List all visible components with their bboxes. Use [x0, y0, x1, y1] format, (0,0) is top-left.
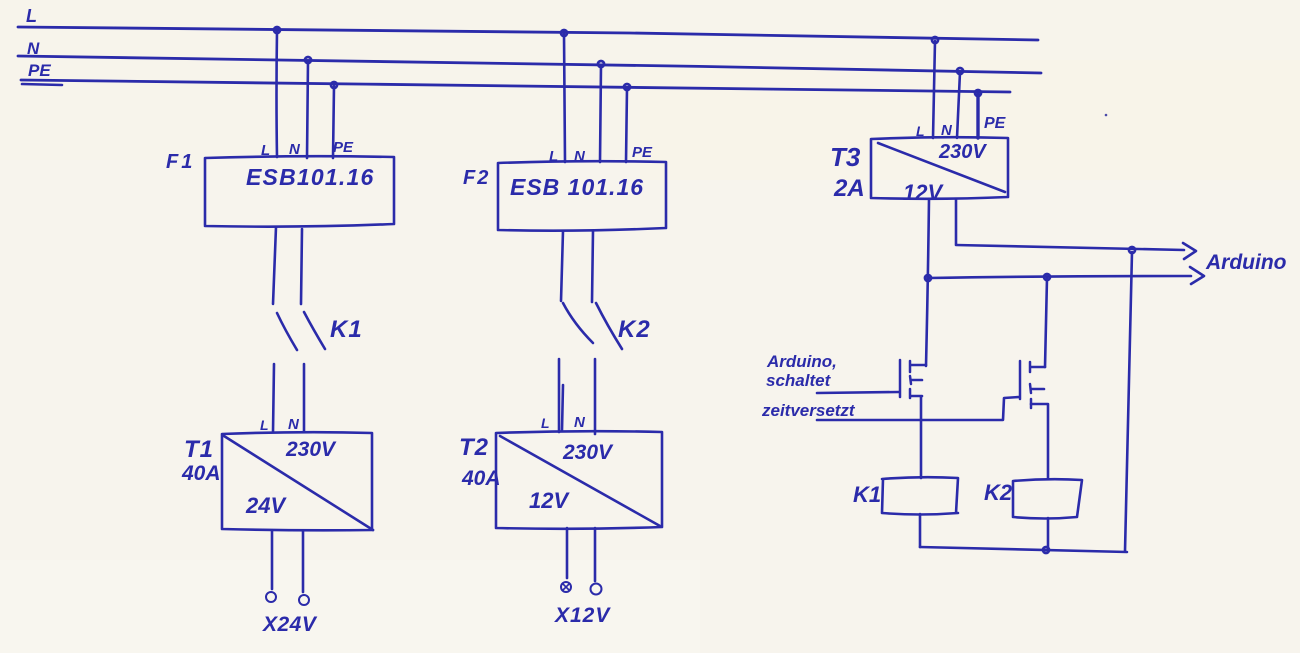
wire PE rail start double stroke [22, 84, 62, 85]
svg-text:24V: 24V [245, 493, 287, 518]
transformer T2 diagonal [500, 436, 660, 526]
terminal X24V left [266, 592, 276, 602]
junction line A [1129, 247, 1135, 253]
wire to T2 L [558, 359, 561, 432]
wire K1 coil out [919, 514, 922, 547]
wire PE rail [21, 80, 1010, 92]
junction N to F2 [598, 61, 604, 67]
svg-text:X12V: X12V [554, 604, 611, 627]
svg-text:N: N [288, 416, 300, 433]
wire N tap to F1 [307, 61, 308, 158]
svg-text:40A: 40A [181, 462, 221, 485]
junction PE to F2 [624, 84, 630, 90]
wire F1 L out [273, 227, 276, 304]
junction line B mid [1044, 274, 1050, 280]
svg-text:K2: K2 [618, 316, 651, 343]
svg-text:Arduino: Arduino [1205, 251, 1287, 274]
wire T2 out right [594, 528, 597, 581]
svg-text:F1: F1 [166, 151, 195, 173]
transistor Q1 gate bar [899, 360, 902, 397]
svg-text:PE: PE [333, 139, 354, 156]
svg-text:230V: 230V [562, 441, 614, 464]
wire Q1 gate lead [817, 392, 899, 393]
breaker F2 box [498, 161, 666, 230]
transistor Q1 drain connection [911, 364, 926, 367]
wire T2 out left [566, 528, 569, 578]
wire PE tap to F2 [626, 88, 627, 162]
svg-text:12V: 12V [903, 180, 944, 205]
svg-text:T2: T2 [459, 434, 489, 461]
svg-text:230V: 230V [938, 141, 987, 163]
wire Q2 drain up to line B [1045, 278, 1047, 367]
arrow line A [1183, 243, 1196, 259]
svg-text:2A: 2A [833, 175, 865, 202]
wire to T1 L [273, 364, 274, 432]
wire Q2 gate lead [817, 397, 1019, 420]
svg-text:Arduino,: Arduino, [766, 352, 837, 371]
svg-text:12V: 12V [529, 488, 570, 513]
wire bottom return [920, 547, 1127, 552]
wire to T1 N [303, 364, 306, 431]
wire N rail [18, 56, 1041, 73]
junction bottom return [1043, 547, 1049, 553]
transistor Q2 gate bar [1019, 361, 1022, 399]
arrow line B [1190, 267, 1204, 284]
wire arduino line B [928, 276, 1191, 278]
transformer T1 box [222, 432, 373, 530]
wire PE tap to T3 [976, 94, 979, 138]
svg-text:N: N [574, 414, 586, 431]
switch K1 blade left [277, 313, 297, 350]
svg-text:X24V: X24V [262, 613, 318, 636]
wire F1 N out [301, 229, 302, 304]
junction N to T3 [957, 68, 963, 74]
transistor Q2 body tick [1032, 388, 1044, 391]
junction PE to F1 [331, 82, 337, 88]
svg-text:ESB101.16: ESB101.16 [246, 164, 374, 190]
transformer T3 box [871, 137, 1008, 199]
transformer T1 diagonal [224, 436, 373, 530]
breaker F1 box [205, 156, 394, 226]
svg-text:PE: PE [984, 115, 1007, 132]
junction L to T3 [932, 37, 938, 43]
svg-text:F2: F2 [463, 167, 490, 189]
wire L tap to F2 [564, 34, 565, 162]
wire T1 out left [271, 531, 274, 589]
transformer T3 diagonal [878, 143, 1005, 192]
wire right return vertical [1125, 252, 1132, 551]
terminal X12V right [591, 584, 602, 595]
svg-text:K2: K2 [984, 480, 1013, 505]
junction N to F1 [305, 57, 311, 63]
switch K2 blade left [563, 303, 593, 343]
junction line B left [925, 275, 931, 281]
svg-text:K1: K1 [330, 316, 363, 343]
wire F2 L out [561, 231, 563, 301]
transistor Q2 drain connection [1031, 366, 1045, 369]
terminal X12V left [561, 582, 571, 592]
wire arduino line A [956, 245, 1184, 250]
wire L tap to T3 [933, 41, 935, 138]
wire to T2 N [594, 359, 597, 434]
wire to T2 L double stroke [562, 385, 563, 430]
wire L tap to F1 [275, 31, 278, 157]
transistor Q2 channel dashes [1030, 362, 1031, 408]
wire T3 right out [955, 199, 958, 244]
svg-text:T1: T1 [184, 436, 214, 463]
junction L to F2 [561, 30, 567, 36]
svg-text:L: L [260, 417, 269, 433]
wire T1 out right [302, 531, 305, 592]
relay coil K2 box [1013, 479, 1082, 518]
svg-text:L: L [541, 415, 550, 431]
svg-text:PE: PE [632, 144, 653, 161]
svg-text:K1: K1 [853, 482, 881, 507]
wire F2 N out [592, 231, 593, 302]
transformer T2 box [496, 431, 662, 529]
svg-text:schaltet: schaltet [766, 371, 832, 390]
terminal X24V right [299, 595, 309, 605]
transistor Q1 source connection [911, 395, 922, 398]
switch K1 blade right [304, 312, 325, 349]
svg-text:230V: 230V [285, 438, 337, 461]
transistor Q2 source connection [1031, 403, 1048, 406]
svg-text:L: L [26, 6, 37, 26]
wire K2 coil out [1047, 518, 1050, 550]
transistor Q1 body tick [911, 379, 922, 382]
svg-text:zeitversetzt: zeitversetzt [761, 401, 856, 420]
wire Q1 source to K1 [920, 397, 923, 478]
transistor Q1 channel dashes [910, 361, 911, 398]
wire T3 left out down to Q1 drain [926, 199, 929, 366]
junction PE to T3 [975, 90, 981, 96]
speck [1105, 114, 1108, 117]
wire Q2 source to K2 [1047, 405, 1050, 479]
wire L rail [18, 27, 1038, 40]
switch K2 blade right [596, 303, 622, 349]
svg-text:ESB 101.16: ESB 101.16 [510, 174, 644, 200]
svg-text:T3: T3 [830, 142, 861, 172]
wire PE tap to F1 [333, 86, 334, 158]
wire N tap to T3 [957, 72, 960, 138]
wire N tap to F2 [600, 65, 601, 162]
svg-text:PE: PE [28, 61, 51, 80]
junction L to F1 [274, 27, 280, 33]
terminal X12V left cross [563, 584, 569, 590]
relay coil K1 box [882, 477, 958, 514]
svg-text:40A: 40A [461, 467, 501, 490]
